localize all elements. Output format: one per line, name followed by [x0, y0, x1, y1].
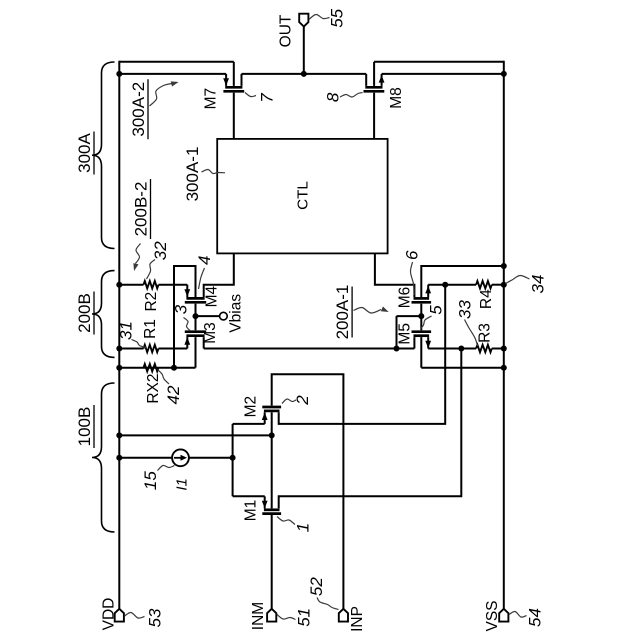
resistor RX2: [144, 364, 159, 371]
svg-text:300A-2: 300A-2: [129, 82, 148, 137]
svg-text:42: 42: [164, 385, 183, 404]
wire M5 source lead: [427, 337, 429, 348]
wire RX2 line: [119, 367, 195, 369]
node M5 source / M1 drain: [458, 346, 464, 352]
wire OUT net right segment: [304, 73, 366, 75]
wire VDD top line to M7 body: [119, 61, 234, 63]
svg-text:R3: R3: [476, 323, 493, 343]
leader 3: [184, 318, 191, 332]
node M5/M6 gate junction: [418, 313, 424, 319]
wire M8 source lead: [381, 74, 383, 86]
svg-text:Vbias: Vbias: [227, 294, 244, 333]
wire M4 source lead: [186, 285, 188, 297]
node VSS rail / M5 body: [501, 365, 507, 371]
node VSS rail / M6 body: [501, 263, 507, 269]
brace 100B: [92, 383, 115, 532]
node tail / I1 junction: [230, 455, 236, 461]
wire M5 source to R3 (node 33): [428, 348, 476, 350]
leader 300A-1: [202, 169, 226, 173]
resistor R3: [476, 345, 492, 352]
svg-text:VDD: VDD: [101, 598, 118, 631]
M7 source arrow (PMOS): [223, 78, 229, 86]
svg-text:51: 51: [295, 608, 314, 627]
brace 200B: [92, 271, 115, 358]
resistor R4: [476, 281, 492, 288]
resistor R1: [144, 345, 159, 352]
svg-text:200B: 200B: [75, 293, 94, 333]
leader 7: [245, 93, 256, 97]
node OUT junction: [301, 71, 307, 77]
leader 1: [277, 517, 295, 525]
wire tail vertical: [232, 424, 234, 496]
leader 200A-1 arrow: [354, 307, 382, 313]
wire M5 body lead: [420, 337, 422, 368]
M2 source arrow (PMOS): [262, 413, 268, 421]
svg-text:54: 54: [526, 608, 545, 627]
leader 34: [506, 275, 530, 283]
node VSS rail / M8 source: [501, 71, 507, 77]
transistor M5: [412, 330, 432, 333]
leader 300A-2 arrow: [150, 84, 173, 107]
node RX2 / body tie junction: [171, 365, 177, 371]
wire M6 source to R4 (node 34): [428, 284, 476, 286]
wire M5 body tie to VSS rail: [421, 367, 504, 369]
wire M7 body lead: [233, 62, 235, 86]
terminal VSS 54: [499, 609, 508, 622]
transistor M3: [185, 330, 206, 333]
wire M3 body lead: [195, 337, 197, 368]
svg-text:M7: M7: [203, 88, 220, 110]
svg-text:M2: M2: [243, 396, 260, 418]
svg-text:M3: M3: [202, 322, 219, 344]
M6 source arrow (NMOS): [425, 286, 431, 294]
node VDD rail / I1: [116, 455, 122, 461]
leader 53: [125, 612, 145, 618]
wire M4 drain to CTL (node 4): [204, 253, 234, 297]
wire gate node line: [397, 315, 422, 317]
wire M5 drain lead to gate-bias line: [413, 337, 415, 348]
node VSS rail / R4: [501, 282, 507, 288]
wire M1 gate to INM: [271, 515, 273, 609]
leader 42: [158, 370, 170, 385]
transistor M7: [225, 86, 242, 89]
svg-text:M8: M8: [388, 87, 405, 109]
svg-text:15: 15: [141, 471, 160, 490]
wire M8 body lead: [373, 62, 375, 86]
leader 4: [199, 268, 205, 289]
svg-text:3: 3: [172, 304, 191, 314]
leader 32: [147, 260, 156, 280]
wire R2 to M4 source (node 32): [159, 284, 188, 286]
leader 8: [340, 93, 363, 98]
wire M4 body tie to RX2 node: [174, 266, 196, 368]
wire R2 line from rail: [119, 284, 143, 286]
leader 2: [282, 399, 296, 404]
svg-text:OUT: OUT: [278, 14, 295, 47]
leader 15: [158, 465, 175, 470]
node VDD rail / body tie: [116, 432, 122, 438]
leader 52: [317, 598, 339, 610]
wire M1/M2 body tie vertical: [271, 412, 273, 508]
svg-text:32: 32: [151, 241, 170, 260]
svg-text:200A-1: 200A-1: [333, 285, 352, 340]
wire M8 drain lead: [365, 74, 367, 86]
wire M7 gate to CTL: [233, 93, 235, 139]
wire M4 gate to Vbias node: [195, 304, 197, 316]
wire OUT net left segment: [242, 73, 304, 75]
svg-text:M1: M1: [243, 500, 260, 522]
svg-text:R4: R4: [478, 289, 495, 309]
svg-text:I1: I1: [173, 478, 190, 491]
wire M6 body tie to VSS rail: [421, 266, 504, 297]
svg-text:INP: INP: [349, 606, 366, 632]
underline 300A-2: [147, 79, 149, 139]
svg-text:5: 5: [427, 305, 446, 315]
underline 200B-2: [150, 179, 152, 239]
wire M8 gate to CTL: [373, 93, 375, 139]
wire M3 source lead: [186, 337, 188, 348]
wire M7 source lead: [225, 74, 227, 86]
node gate bias / M3 drain junction: [394, 346, 400, 352]
leader 55: [309, 14, 330, 19]
svg-text:1: 1: [294, 523, 313, 532]
underline 300A: [93, 132, 95, 175]
leader 33: [465, 320, 478, 347]
wire M2 gate to INP: [272, 374, 344, 609]
svg-text:31: 31: [117, 321, 136, 340]
wire M1 drain to node 33: [279, 349, 462, 509]
svg-text:55: 55: [328, 8, 347, 27]
wire VSS right rail: [503, 61, 505, 609]
wire R4 to rail: [492, 284, 504, 286]
node Vbias junction: [193, 313, 199, 319]
node VDD rail / RX2: [116, 365, 122, 371]
leader 51: [277, 615, 296, 620]
leader 54: [509, 611, 527, 617]
svg-text:100B: 100B: [75, 407, 94, 447]
wire M2 drain to node 34: [279, 285, 446, 424]
svg-text:M5: M5: [397, 323, 414, 345]
node VSS rail / R3: [501, 346, 507, 352]
wire M3 gate to Vbias node: [195, 316, 197, 330]
wire M8 source to VSS rail: [382, 73, 504, 75]
wire M2 source lead: [264, 412, 266, 424]
wire VDD to I1: [119, 457, 172, 459]
wire M1 source to tail: [233, 495, 265, 497]
node VDD rail / R2: [116, 282, 122, 288]
M8 source arrow (NMOS): [379, 75, 385, 83]
leader 6: [410, 262, 414, 295]
wire VDD left rail: [118, 61, 120, 609]
M1 source arrow (PMOS): [262, 501, 268, 509]
svg-text:33: 33: [456, 300, 475, 319]
M3 source arrow (PMOS): [184, 337, 190, 345]
wire M7 drain lead: [241, 74, 243, 86]
wire M1 source lead: [264, 496, 266, 508]
node M6 source / M2 drain: [442, 282, 448, 288]
wire CTL to M6 drain (node 6): [375, 253, 415, 297]
terminal Vbias: [220, 312, 228, 320]
wire M2 source to tail: [233, 423, 265, 425]
terminal VDD 53: [115, 609, 124, 622]
leader 200B-2 arrow: [136, 244, 141, 264]
svg-text:7: 7: [258, 93, 277, 103]
wire OUT stub to terminal: [303, 26, 305, 74]
wire VDD source line to M7: [119, 73, 226, 75]
leader 31: [132, 340, 147, 348]
block CTL (300A-1): [217, 139, 387, 254]
wire M3 drain lead: [203, 337, 205, 348]
resistor R2: [144, 281, 159, 288]
terminal INM 51: [267, 609, 276, 622]
wire Vbias stub: [196, 315, 220, 317]
terminal INP 52: [339, 609, 348, 622]
svg-text:6: 6: [403, 250, 422, 260]
wire gate node down to M3 drain line: [396, 316, 398, 348]
wire R3 to rail: [492, 348, 504, 350]
transistor M1: [264, 508, 280, 511]
wire M6 gate to gate node: [420, 304, 422, 316]
svg-text:8: 8: [324, 92, 343, 102]
svg-text:300A-1: 300A-1: [183, 147, 202, 202]
node VDD rail / M7 source: [116, 71, 122, 77]
transistor M4: [186, 297, 204, 300]
transistor M8: [365, 86, 382, 89]
terminal OUT 55: [299, 14, 308, 27]
wire VSS top line from M8 body: [374, 61, 504, 63]
brace 300A: [92, 62, 115, 249]
svg-text:RX2: RX2: [145, 374, 162, 404]
svg-text:2: 2: [293, 395, 312, 406]
svg-text:52: 52: [307, 577, 326, 596]
svg-text:300A: 300A: [75, 132, 94, 172]
svg-text:R2: R2: [143, 292, 160, 312]
wire M3 drain to gate node and M5 drain (node 3): [204, 348, 415, 350]
svg-text:VSS: VSS: [484, 600, 501, 631]
transistor M6: [414, 297, 430, 300]
underline 200A-1: [351, 287, 353, 338]
wire M6 source lead: [427, 285, 429, 297]
svg-text:34: 34: [529, 275, 548, 294]
wire R1 to rail: [119, 348, 143, 350]
underline 100B: [93, 405, 95, 448]
svg-text:200B-2: 200B-2: [132, 182, 151, 237]
leader 5: [421, 316, 432, 329]
wire body tie to VDD rail: [119, 434, 271, 436]
svg-text:53: 53: [145, 608, 164, 627]
wire M3 source to R1 (node 31): [159, 348, 188, 350]
svg-text:R1: R1: [142, 319, 159, 339]
svg-text:M4: M4: [204, 285, 221, 307]
svg-text:4: 4: [195, 256, 214, 265]
wire M5 gate to gate node: [420, 316, 422, 330]
node VDD rail / R1: [116, 346, 122, 352]
M4 source arrow (PMOS): [184, 289, 190, 297]
svg-text:M6: M6: [397, 287, 414, 309]
underline 200B: [93, 292, 95, 335]
svg-text:INM: INM: [250, 602, 267, 630]
node body tie junction: [269, 432, 275, 438]
wire I1 to tail: [189, 457, 233, 459]
svg-text:CTL: CTL: [295, 181, 312, 210]
transistor M2: [262, 406, 281, 409]
M5 source arrow (NMOS): [425, 341, 431, 349]
current source I1: [172, 449, 189, 466]
